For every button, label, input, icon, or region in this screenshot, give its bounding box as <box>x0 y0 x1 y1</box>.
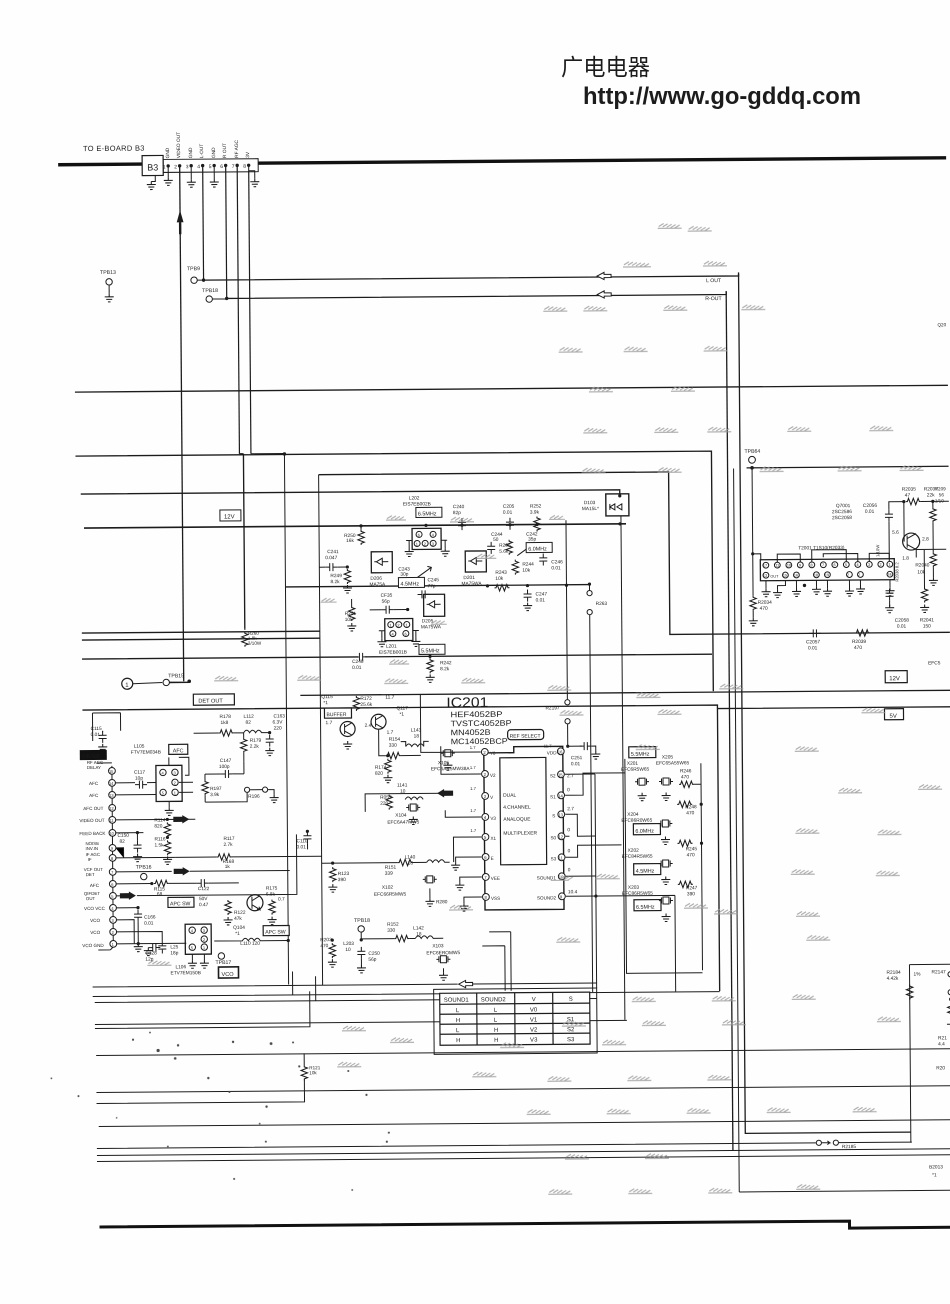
wire TPB64 rail <box>747 466 949 468</box>
transistor Q117 <box>371 714 386 729</box>
wire bus y984 with left arrow <box>93 983 597 987</box>
svg-text:C251: C251 <box>571 755 583 761</box>
svg-text:12V: 12V <box>224 514 235 520</box>
svg-text:16: 16 <box>794 573 798 577</box>
svg-text:17: 17 <box>763 564 767 568</box>
svg-text:C122: C122 <box>198 886 210 892</box>
connector B3 box <box>142 155 163 175</box>
table outer box <box>434 988 598 1054</box>
svg-text:R244: R244 <box>522 562 534 568</box>
svg-text:VCO: VCO <box>90 918 100 923</box>
svg-text:4.5MHz: 4.5MHz <box>400 581 419 587</box>
wire main top rail <box>58 158 946 165</box>
diode D201 <box>465 551 486 572</box>
svg-text:D201: D201 <box>463 575 475 581</box>
svg-text:C166: C166 <box>144 915 156 921</box>
arrow right pin7 <box>174 867 190 876</box>
svg-text:AFC: AFC <box>90 883 100 888</box>
svg-text:0.01: 0.01 <box>571 761 581 767</box>
svg-text:13: 13 <box>558 812 563 817</box>
svg-text:R2035: R2035 <box>902 487 917 493</box>
label 5.5MHz box <box>419 644 445 654</box>
svg-text:V2: V2 <box>530 1028 538 1034</box>
svg-text:0.47: 0.47 <box>199 902 209 908</box>
svg-text:10k: 10k <box>309 1070 317 1075</box>
label 12V box right <box>885 671 907 683</box>
wire bus y1025 <box>95 991 310 1028</box>
svg-text:6.0MHz: 6.0MHz <box>528 546 547 552</box>
label APC SW box <box>168 897 194 907</box>
svg-text:V2: V2 <box>490 773 496 778</box>
filter block verticals <box>595 758 703 988</box>
label REF SELECT box <box>508 729 544 739</box>
wire bus y490 <box>81 490 620 500</box>
svg-text:R151: R151 <box>385 865 397 871</box>
svg-text:0: 0 <box>568 848 571 854</box>
module L105 coil <box>156 765 182 801</box>
svg-text:L-OUT: L-OUT <box>199 144 205 159</box>
svg-text:DUAL: DUAL <box>503 793 516 799</box>
svg-text:L203: L203 <box>343 941 354 947</box>
svg-text:35p: 35p <box>528 537 536 543</box>
svg-text:*1: *1 <box>399 712 404 718</box>
svg-text:2.7k: 2.7k <box>223 842 233 848</box>
label AFC box <box>169 744 188 754</box>
label 5V box right <box>884 709 903 720</box>
svg-text:V3: V3 <box>490 816 496 821</box>
svg-text:0.01: 0.01 <box>503 510 513 516</box>
svg-text:*1: *1 <box>323 700 328 706</box>
wire L-OUT pin4 down <box>202 167 205 280</box>
svg-text:R196: R196 <box>248 794 260 800</box>
svg-text:C2056: C2056 <box>863 503 878 509</box>
svg-text:3.9k: 3.9k <box>530 509 540 515</box>
svg-text:B3: B3 <box>147 162 158 172</box>
svg-text:S: S <box>552 813 555 818</box>
connector ground stubs <box>151 167 255 182</box>
svg-text:3: 3 <box>868 563 870 567</box>
svg-text:0.01: 0.01 <box>808 645 818 651</box>
wire 12V rail y524 <box>84 524 626 528</box>
T2001 top pin row <box>763 561 893 568</box>
svg-text:C245: C245 <box>427 577 439 583</box>
svg-text:0: 0 <box>567 787 570 793</box>
svg-text:R263: R263 <box>596 601 608 607</box>
svg-text:VCO: VCO <box>90 930 100 935</box>
svg-text:0.01: 0.01 <box>865 509 875 515</box>
svg-text:4.42k: 4.42k <box>887 976 899 982</box>
connector pin name labels (rotated) <box>165 131 251 158</box>
svg-text:R-OUT: R-OUT <box>705 296 722 302</box>
svg-text:150: 150 <box>923 623 931 629</box>
svg-text:5V: 5V <box>889 714 896 720</box>
IC201 left pins <box>470 745 500 901</box>
svg-text:50: 50 <box>493 537 499 543</box>
svg-text:4: 4 <box>197 164 200 170</box>
svg-text:H: H <box>456 1018 460 1024</box>
svg-text:22k: 22k <box>927 492 935 498</box>
svg-text:0: 0 <box>567 827 570 833</box>
svg-text:11.7: 11.7 <box>385 695 394 701</box>
svg-text:TPB15: TPB15 <box>168 673 184 679</box>
thick bottom rail <box>100 1220 950 1234</box>
svg-text:VIDEO OUT: VIDEO OUT <box>176 132 182 159</box>
svg-text:6: 6 <box>220 164 223 170</box>
wire L OUT run to right <box>204 272 739 280</box>
svg-text:10k: 10k <box>522 568 530 574</box>
svg-text:C2057: C2057 <box>806 639 821 645</box>
junction dots trap rails <box>283 450 569 612</box>
wire 3V pin8 down <box>249 171 251 454</box>
wire vertical x590 R263 branch <box>589 584 592 992</box>
svg-text:2: 2 <box>174 164 177 170</box>
ground symbols under connector <box>147 181 156 189</box>
IC201 inner multiplexer box <box>500 757 547 864</box>
module L106 coil <box>185 924 211 954</box>
svg-text:R20: R20 <box>936 1065 945 1071</box>
arrow on R OUT wire <box>597 291 611 298</box>
svg-text:GND: GND <box>211 147 217 158</box>
IC201 outline <box>484 746 564 910</box>
svg-text:0.7: 0.7 <box>278 897 285 903</box>
svg-text:14: 14 <box>558 793 563 798</box>
arrow on L OUT wire <box>597 272 611 279</box>
svg-text:R152: R152 <box>387 922 399 928</box>
bottom right box <box>909 964 950 1142</box>
svg-text:L25: L25 <box>170 944 178 950</box>
svg-text:C248: C248 <box>352 659 364 665</box>
wire bus y706-710 <box>82 703 950 996</box>
connector gap R2185 <box>816 1140 821 1145</box>
svg-text:H: H <box>494 1038 498 1044</box>
svg-text:12: 12 <box>558 834 563 839</box>
svg-text:S3: S3 <box>551 856 557 861</box>
svg-text:0: 0 <box>568 867 571 873</box>
svg-text:R2034: R2034 <box>758 600 773 606</box>
svg-text:4.CHANNEL: 4.CHANNEL <box>503 805 531 811</box>
svg-text:R179: R179 <box>250 738 262 744</box>
arrow on pin5 <box>116 895 134 897</box>
wire R-OUT run to right <box>227 291 727 298</box>
svg-text:16k: 16k <box>346 538 354 544</box>
svg-text:X104: X104 <box>395 813 407 819</box>
svg-text:13: 13 <box>763 574 767 578</box>
svg-text:56p: 56p <box>368 957 376 963</box>
svg-text:REF SELECT: REF SELECT <box>510 733 541 739</box>
svg-text:R2040: R2040 <box>915 562 930 568</box>
svg-text:C250: C250 <box>368 951 380 957</box>
svg-text:15: 15 <box>558 772 563 777</box>
svg-text:470: 470 <box>681 774 689 780</box>
svg-text:330: 330 <box>387 928 395 934</box>
svg-text:0.047: 0.047 <box>325 555 337 561</box>
svg-text:D103: D103 <box>584 500 596 506</box>
wire RF AGC pin7 down <box>237 167 239 454</box>
diode D206 <box>371 552 392 573</box>
svg-text:10: 10 <box>787 564 791 568</box>
svg-text:6.5MHz: 6.5MHz <box>636 905 655 911</box>
svg-text:R172: R172 <box>360 696 372 702</box>
svg-text:5: 5 <box>845 563 847 567</box>
svg-text:GND: GND <box>188 147 194 158</box>
svg-text:X102: X102 <box>382 885 394 891</box>
svg-text:390: 390 <box>687 891 695 897</box>
wire bus y585 to R263 <box>285 585 589 587</box>
svg-text:8.2k: 8.2k <box>330 579 340 585</box>
svg-text:0.01: 0.01 <box>551 565 561 571</box>
svg-text:1k8: 1k8 <box>221 720 229 726</box>
wire bus y452 <box>75 451 713 696</box>
T2001 bottom pin row <box>763 571 893 578</box>
svg-text:7: 7 <box>232 164 235 170</box>
wire pin13 to module <box>115 794 156 796</box>
svg-text:R175: R175 <box>266 886 278 892</box>
svg-text:R2185: R2185 <box>842 1144 857 1150</box>
module L201 coil <box>385 618 413 640</box>
svg-text:1/10W: 1/10W <box>875 545 880 557</box>
svg-text:3: 3 <box>186 164 189 170</box>
svg-text:Q20: Q20 <box>937 322 946 327</box>
IC201 left pin wires <box>420 694 482 903</box>
svg-text:1.5k: 1.5k <box>154 842 164 848</box>
svg-text:1: 1 <box>163 164 166 170</box>
truth table <box>440 992 590 1045</box>
svg-text:47: 47 <box>905 493 911 499</box>
wire bus y1152 <box>97 1149 950 1156</box>
IC201 right pin wires <box>565 772 676 992</box>
wire bus y1021 <box>95 1020 627 1024</box>
svg-text:TPB17: TPB17 <box>215 960 231 966</box>
svg-text:R21: R21 <box>938 1035 947 1041</box>
svg-text:1.8: 1.8 <box>902 556 909 562</box>
svg-text:S1: S1 <box>550 794 556 799</box>
svg-text:RF AGC: RF AGC <box>234 139 240 157</box>
svg-text:50V: 50V <box>199 896 208 902</box>
svg-text:VCO: VCO <box>222 972 235 978</box>
svg-text:X103: X103 <box>432 943 444 949</box>
svg-text:SOUND2: SOUND2 <box>537 895 557 900</box>
svg-text:广电电器: 广电电器 <box>561 54 650 80</box>
svg-text:VEE: VEE <box>491 876 500 881</box>
svg-text:B2013: B2013 <box>929 1164 943 1170</box>
wire vertical x286 <box>251 453 289 984</box>
svg-text:5.5MHz: 5.5MHz <box>631 752 650 758</box>
svg-text:TVSTC4052BP: TVSTC4052BP <box>451 719 512 728</box>
svg-text:6.3V: 6.3V <box>273 720 284 726</box>
svg-text:IF: IF <box>88 857 92 862</box>
wire bus y1145 R2185 <box>97 1142 912 1148</box>
svg-text:VCO GND: VCO GND <box>82 943 104 948</box>
wire bus y1194 right <box>739 1190 950 1192</box>
svg-text:R280: R280 <box>436 899 448 905</box>
IF IC pin column rail <box>112 766 113 944</box>
wire pin3 <box>116 920 134 944</box>
svg-text:1k: 1k <box>225 864 231 870</box>
svg-text:4.4: 4.4 <box>938 1041 945 1047</box>
svg-text:2: 2 <box>858 573 860 577</box>
label VIF/SIF inverted <box>80 750 107 760</box>
svg-text:1.7: 1.7 <box>470 786 477 791</box>
svg-text:S2: S2 <box>550 773 556 778</box>
svg-text:R2147: R2147 <box>932 969 947 975</box>
svg-text:S2: S2 <box>567 1027 575 1033</box>
svg-text:1.7: 1.7 <box>470 808 477 813</box>
svg-text:IC201: IC201 <box>446 694 488 710</box>
svg-text:EFC6AR5MW38A: EFC6AR5MW38A <box>431 766 470 772</box>
svg-text:4.5MHz: 4.5MHz <box>636 869 655 875</box>
svg-text:TPB16: TPB16 <box>136 865 152 871</box>
wire sound out y636 with C2057 R2039 <box>809 629 821 637</box>
svg-text:C246: C246 <box>551 559 563 565</box>
junction dot sound2 <box>594 894 597 897</box>
svg-text:10: 10 <box>345 947 351 953</box>
svg-text:339: 339 <box>385 871 393 877</box>
svg-text:MA15L*: MA15L* <box>582 506 599 512</box>
svg-text:MA75WA: MA75WA <box>421 624 442 630</box>
wire pin1 gnd rail <box>116 942 186 945</box>
svg-text:SOUND2: SOUND2 <box>481 997 507 1003</box>
svg-text:DELAY: DELAY <box>87 765 101 770</box>
svg-text:L110 120: L110 120 <box>240 941 260 947</box>
svg-text:330: 330 <box>389 743 397 749</box>
svg-text:10.4: 10.4 <box>568 889 578 895</box>
svg-text:1141: 1141 <box>397 783 408 789</box>
svg-text:D205: D205 <box>422 618 434 624</box>
svg-text:1.7: 1.7 <box>387 730 394 736</box>
svg-text:OUT: OUT <box>86 896 96 901</box>
svg-text:R117: R117 <box>223 836 234 842</box>
svg-text:ETV7EM150B: ETV7EM150B <box>170 970 200 976</box>
svg-text:EIS7EB001B: EIS7EB001B <box>379 650 407 656</box>
svg-text:FEED BACK: FEED BACK <box>79 831 106 836</box>
wire vertical x735 <box>734 468 740 1191</box>
svg-text:H: H <box>494 1028 498 1034</box>
svg-text:V: V <box>532 997 536 1003</box>
svg-text:DET OUT: DET OUT <box>198 698 223 704</box>
svg-text:L OUT: L OUT <box>706 278 722 284</box>
svg-text:X203: X203 <box>628 885 640 891</box>
svg-text:INV.IN: INV.IN <box>86 846 99 851</box>
T2001 top loops <box>777 549 858 562</box>
wire base Q7001 <box>903 502 905 542</box>
label VCO box <box>218 967 238 978</box>
svg-text:R116: R116 <box>154 836 165 842</box>
svg-text:V3: V3 <box>530 1038 538 1044</box>
svg-text:EFC84R5W65: EFC84R5W65 <box>622 854 653 860</box>
svg-text:6.5MHz: 6.5MHz <box>418 511 437 517</box>
svg-text:MA75A: MA75A <box>369 582 386 588</box>
svg-text:8: 8 <box>811 563 813 567</box>
svg-text:8.2k: 8.2k <box>440 666 450 672</box>
wire video-out pin2 down <box>180 167 184 681</box>
svg-text:S: S <box>569 997 573 1003</box>
svg-text:220: 220 <box>274 726 282 732</box>
svg-text:R2197: R2197 <box>545 705 560 711</box>
svg-text:*1: *1 <box>932 1172 937 1178</box>
transistor Q7001 <box>903 533 920 550</box>
svg-text:100p: 100p <box>219 764 230 770</box>
svg-text:V0: V0 <box>530 1008 538 1014</box>
wire bus y390 <box>75 385 948 392</box>
svg-text:R249: R249 <box>330 573 342 579</box>
svg-text:18: 18 <box>414 733 420 739</box>
svg-text:2.8: 2.8 <box>922 536 929 542</box>
svg-text:9: 9 <box>799 563 801 567</box>
svg-text:VDD: VDD <box>547 750 557 755</box>
svg-text:1.7: 1.7 <box>470 828 477 833</box>
svg-text:X201: X201 <box>627 761 639 767</box>
wire bus y693 <box>300 690 950 695</box>
svg-text:820: 820 <box>154 823 162 829</box>
svg-text:0.01: 0.01 <box>297 844 307 850</box>
svg-text:R197: R197 <box>210 786 222 792</box>
svg-text:Q115: Q115 <box>321 694 333 700</box>
label 12V box left <box>220 510 241 521</box>
svg-text:EFC86R5W65: EFC86R5W65 <box>622 891 653 897</box>
svg-text:CF35: CF35 <box>381 593 393 599</box>
svg-text:Q117: Q117 <box>396 706 408 712</box>
svg-text:EFC66R5MW5: EFC66R5MW5 <box>374 892 407 898</box>
svg-text:TPB64: TPB64 <box>744 449 760 455</box>
svg-text:11.7: 11.7 <box>544 743 553 748</box>
svg-text:L202: L202 <box>409 495 420 501</box>
svg-text:6.0MHz: 6.0MHz <box>635 829 654 835</box>
svg-text:25.6k: 25.6k <box>360 702 372 708</box>
svg-text:EFC6R5W65: EFC6R5W65 <box>621 767 650 773</box>
svg-text:2.2k: 2.2k <box>250 744 260 750</box>
diode D205 <box>424 594 445 616</box>
wire bus y630 <box>82 631 320 633</box>
svg-text:TPB18: TPB18 <box>202 288 218 294</box>
svg-text:E: E <box>491 856 494 861</box>
arrow right on video out <box>173 815 189 824</box>
svg-text:X202: X202 <box>628 848 640 854</box>
svg-text:11: 11 <box>775 564 779 568</box>
label 6.0MHz box <box>526 542 552 552</box>
svg-text:R242: R242 <box>440 660 452 666</box>
svg-text:390: 390 <box>338 877 346 883</box>
svg-text:2.4: 2.4 <box>365 723 372 729</box>
wire vertical x622 from D103 <box>621 516 625 1020</box>
svg-text:APC SW: APC SW <box>170 901 191 907</box>
svg-text:TPB18: TPB18 <box>354 918 370 924</box>
svg-text:56: 56 <box>939 492 945 497</box>
svg-text:18: 18 <box>408 860 414 866</box>
resistor R260 1.8k zig <box>242 632 249 647</box>
svg-text:L105: L105 <box>134 744 145 750</box>
svg-text:470: 470 <box>854 645 862 651</box>
svg-text:R123: R123 <box>338 871 350 877</box>
svg-text:EFC65A55W65: EFC65A55W65 <box>656 760 690 766</box>
svg-text:EFC86R0W65: EFC86R0W65 <box>621 818 652 824</box>
label APC SW box 2 <box>263 925 289 935</box>
transistor Q104 <box>247 895 263 911</box>
svg-text:X205: X205 <box>662 754 674 760</box>
svg-text:R122: R122 <box>234 910 246 916</box>
svg-text:3/10W: 3/10W <box>248 641 262 646</box>
arrow up on video line <box>177 210 184 222</box>
svg-text:APC SW: APC SW <box>265 929 286 935</box>
transformer T2001 box <box>760 559 894 581</box>
svg-text:MC14052BCP: MC14052BCP <box>451 737 508 746</box>
wire bus y1089 <box>96 1086 950 1093</box>
svg-text:470: 470 <box>686 810 694 816</box>
svg-text:18: 18 <box>814 573 818 577</box>
svg-text:SOUND1: SOUND1 <box>537 875 557 880</box>
svg-text:5: 5 <box>209 164 212 170</box>
wire stubs into table <box>482 932 511 991</box>
svg-text:L142: L142 <box>413 925 424 931</box>
